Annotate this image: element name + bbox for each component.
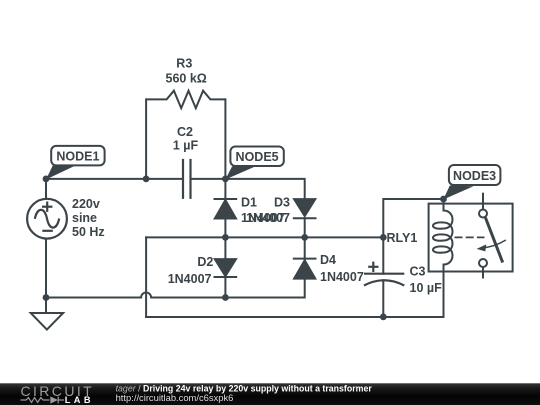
footer bar: [0, 383, 540, 405]
node dot D2 bottom: [222, 294, 229, 301]
logo diode triangle: [50, 396, 58, 403]
wire R3 left branch: [145, 99, 147, 178]
wire bottom rail: [146, 316, 443, 318]
wire left return vertical: [145, 237, 147, 317]
diode D3: [293, 199, 317, 218]
diode D2: [214, 259, 238, 277]
diode D4: [293, 259, 317, 279]
svg-text:sine: sine: [72, 211, 97, 225]
wire relay coil top lead: [443, 199, 445, 211]
svg-text:NODE1: NODE1: [56, 149, 99, 163]
wire D2 bottom lead: [224, 277, 226, 298]
wire D1 bottom lead: [224, 219, 226, 238]
node label NODE3: [443, 165, 500, 200]
svg-text:NODE5: NODE5: [236, 150, 279, 164]
wire C3 bottom lead: [382, 281, 384, 317]
svg-text:C3: C3: [410, 264, 426, 278]
diode D1: [214, 199, 238, 219]
logo zigzag wire and diode: [21, 397, 65, 404]
node dot AC bottom: [43, 294, 50, 301]
node label NODE5: [225, 147, 283, 180]
svg-text:RLY1: RLY1: [387, 231, 418, 245]
wire D2 leads: [224, 237, 226, 259]
svg-text:D4: D4: [320, 253, 336, 267]
wire D4 top lead: [304, 237, 306, 259]
wire R3 right branch: [224, 99, 226, 178]
wire bottom AC rail with hop: [46, 280, 305, 298]
wire top rail left: [46, 178, 183, 180]
node dot D1 D2 mid: [222, 234, 229, 241]
relay arrow head: [477, 244, 487, 251]
node dot RLY1: [380, 234, 387, 241]
node dot C3 bottom: [380, 314, 387, 321]
wire C2 to NODE5: [191, 178, 226, 180]
svg-text:50 Hz: 50 Hz: [72, 225, 105, 239]
svg-text:1N4007: 1N4007: [320, 270, 364, 284]
capacitor C2: [183, 159, 191, 199]
svg-text:R3: R3: [176, 56, 192, 70]
svg-text:220v: 220v: [72, 197, 100, 211]
node dot NODE5: [222, 176, 229, 183]
svg-text:NODE3: NODE3: [453, 169, 496, 183]
svg-text:D2: D2: [197, 255, 213, 269]
svg-text:560 kΩ: 560 kΩ: [166, 72, 207, 86]
svg-text:1N4007: 1N4007: [246, 211, 290, 225]
AC source V1: [27, 199, 67, 239]
svg-text:10 µF: 10 µF: [410, 281, 443, 295]
svg-text:1N4007: 1N4007: [168, 272, 212, 286]
node label NODE1: [46, 146, 105, 180]
wire NODE5 to D3 top: [225, 179, 304, 199]
svg-text:C2: C2: [177, 125, 193, 139]
node dot NODE3 coil top: [440, 196, 447, 203]
ground: [31, 298, 63, 330]
wire relay coil bottom lead: [443, 265, 445, 318]
wire V1 bottom lead: [45, 239, 47, 313]
svg-text:D1: D1: [241, 196, 257, 210]
node dot NODE1: [43, 176, 50, 183]
wire middle rail B: [146, 236, 383, 238]
wire D3 bottom lead: [304, 218, 306, 237]
svg-text:1 µF: 1 µF: [173, 139, 199, 153]
resistor R3: [146, 91, 225, 109]
wire V1 top lead: [45, 179, 47, 199]
svg-text:http://circuitlab.com/c6sxpk6: http://circuitlab.com/c6sxpk6: [116, 392, 234, 403]
relay RLY1: [429, 193, 513, 279]
wire D1 leads: [224, 179, 226, 199]
node dot D3 D4 mid: [301, 234, 308, 241]
junction node dots: [43, 176, 447, 321]
capacitor C3: [364, 262, 404, 286]
svg-text:D3: D3: [274, 196, 290, 210]
wire RLY riser: [383, 199, 443, 274]
svg-text:LAB: LAB: [65, 395, 94, 405]
node dot R3 left: [143, 176, 150, 183]
